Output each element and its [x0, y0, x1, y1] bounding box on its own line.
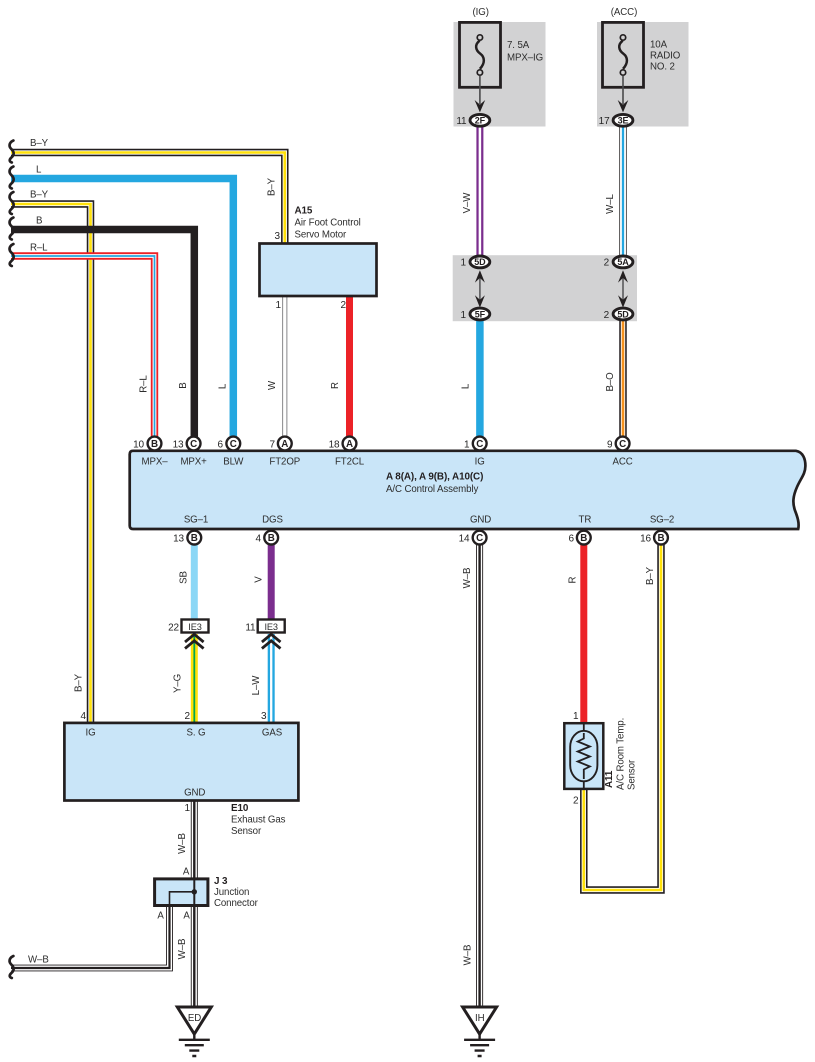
pin circle DGS 4B — [264, 531, 278, 545]
ground ED hatch — [179, 1034, 210, 1056]
pin circle MPX+ 13C — [187, 437, 201, 451]
svg-text:B–Y: B–Y — [74, 673, 85, 692]
svg-text:BLW: BLW — [223, 457, 244, 468]
pin circle GND 14C — [473, 531, 487, 545]
svg-text:MPX–IG: MPX–IG — [507, 53, 543, 64]
fuse 7.5A MPX-IG body — [460, 22, 501, 87]
connector oval 5A top — [613, 256, 633, 268]
svg-text:RADIO: RADIO — [650, 51, 681, 62]
svg-text:B: B — [191, 533, 198, 544]
svg-text:R: R — [568, 576, 579, 583]
svg-text:B: B — [178, 382, 189, 388]
relay block background — [453, 255, 637, 321]
wire W-B GND to IH ground — [476, 544, 483, 1007]
svg-text:Sensor: Sensor — [231, 826, 262, 837]
svg-text:6: 6 — [569, 534, 575, 545]
svg-text:2: 2 — [573, 796, 579, 807]
svg-text:2: 2 — [604, 258, 610, 269]
ground IH hatch — [464, 1034, 495, 1056]
cut squiggle L — [10, 167, 14, 189]
svg-text:L: L — [461, 383, 472, 389]
svg-text:1: 1 — [185, 803, 191, 814]
svg-text:R–L: R–L — [139, 375, 150, 393]
cut squiggle B-Y second — [10, 192, 14, 214]
J3 internal branch wire — [170, 892, 195, 905]
arrow into 2F — [475, 100, 486, 112]
connector IE3 left box — [182, 620, 209, 633]
svg-text:C: C — [476, 439, 483, 450]
svg-text:Air Foot Control: Air Foot Control — [295, 218, 361, 229]
svg-text:1: 1 — [461, 310, 467, 321]
svg-text:2: 2 — [341, 300, 347, 311]
svg-text:GAS: GAS — [262, 728, 283, 739]
wire W-B branch from left to J3 — [11, 904, 170, 968]
svg-text:6: 6 — [218, 440, 224, 451]
svg-text:10A: 10A — [650, 40, 668, 51]
wire W-L fuse ACC to relay — [619, 126, 626, 256]
wire V-W fuse IG to relay — [476, 126, 483, 256]
svg-text:Exhaust Gas: Exhaust Gas — [231, 815, 286, 826]
ground IH triangle — [463, 1007, 497, 1034]
svg-text:5F: 5F — [475, 309, 486, 319]
svg-text:A/C Room Temp.: A/C Room Temp. — [616, 718, 627, 790]
svg-text:IE3: IE3 — [264, 622, 278, 632]
svg-text:GND: GND — [184, 788, 205, 799]
pin circle IG 1C — [473, 437, 487, 451]
svg-text:C: C — [190, 439, 197, 450]
svg-text:Junction: Junction — [214, 887, 249, 898]
A11 pin stubs — [583, 723, 585, 789]
svg-text:18: 18 — [329, 440, 340, 451]
svg-text:17: 17 — [599, 116, 610, 127]
svg-text:E10: E10 — [231, 803, 249, 814]
svg-text:J 3: J 3 — [214, 876, 228, 887]
svg-text:ED: ED — [188, 1013, 201, 1024]
wire W A15 pin1 to FT2OP — [282, 297, 287, 437]
svg-text:(ACC): (ACC) — [611, 7, 637, 18]
svg-text:A 8(A), A 9(B), A10(C): A 8(A), A 9(B), A10(C) — [386, 472, 483, 483]
connector IE3 right box — [258, 620, 285, 633]
wire B-O relay 5D to ACC pin — [619, 318, 627, 437]
connector oval 5D top — [470, 256, 490, 268]
svg-text:2: 2 — [604, 310, 610, 321]
svg-text:A: A — [183, 867, 190, 878]
svg-text:W–B: W–B — [463, 945, 474, 966]
svg-text:IG: IG — [85, 728, 95, 739]
wire B-Y top to A15 pin3 — [11, 153, 285, 246]
svg-text:MPX+: MPX+ — [180, 457, 207, 468]
fuse 10A RADIO NO.2 body — [603, 22, 644, 87]
A/C room temp sensor A11 box — [564, 723, 603, 789]
svg-text:R–L: R–L — [30, 243, 48, 254]
svg-text:2: 2 — [185, 711, 191, 722]
svg-text:W–B: W–B — [177, 939, 188, 960]
IE3 right chevron — [262, 634, 281, 648]
svg-text:C: C — [619, 439, 626, 450]
wire R A15 pin2 to FT2CL — [346, 297, 353, 437]
svg-text:L: L — [36, 165, 42, 176]
servo motor A15 box — [260, 244, 377, 297]
J3 junction dot — [192, 889, 197, 894]
svg-text:FT2OP: FT2OP — [269, 457, 300, 468]
svg-text:W–B: W–B — [28, 955, 49, 966]
svg-text:IG: IG — [475, 457, 485, 468]
svg-text:4: 4 — [81, 711, 87, 722]
wire L to BLW pin — [11, 179, 233, 438]
svg-text:V: V — [254, 576, 265, 583]
svg-text:B: B — [580, 533, 587, 544]
pin circle FT2OP 7A — [278, 437, 292, 451]
svg-text:A/C Control Assembly: A/C Control Assembly — [386, 484, 478, 495]
svg-text:3: 3 — [261, 711, 267, 722]
svg-text:Y–G: Y–G — [173, 674, 184, 693]
ground ED triangle — [177, 1007, 211, 1034]
svg-text:Sensor: Sensor — [627, 759, 638, 790]
svg-text:IH: IH — [475, 1013, 485, 1024]
svg-text:C: C — [230, 439, 237, 450]
svg-text:3E: 3E — [618, 116, 629, 126]
wire R TR to A11 pin1 — [580, 544, 587, 723]
svg-text:A: A — [281, 439, 288, 450]
svg-text:14: 14 — [459, 534, 470, 545]
svg-text:1: 1 — [276, 300, 282, 311]
svg-text:W–B: W–B — [462, 568, 473, 589]
svg-text:DGS: DGS — [262, 515, 283, 526]
svg-text:B–Y: B–Y — [30, 138, 49, 149]
pin circle FT2CL 18A — [343, 437, 357, 451]
wire R-L to MPX- pin — [11, 256, 155, 437]
cut squiggle B-Y top — [10, 141, 14, 163]
svg-text:A: A — [157, 911, 164, 922]
arrow into 3E — [618, 100, 629, 112]
svg-text:4: 4 — [256, 534, 262, 545]
svg-text:5D: 5D — [474, 257, 486, 267]
svg-text:B–Y: B–Y — [267, 177, 278, 196]
svg-text:NO. 2: NO. 2 — [650, 62, 675, 73]
wire L-W IE3 to E10 GAS — [268, 634, 275, 723]
wire SB SG-1 to IE3 — [191, 544, 198, 620]
svg-text:GND: GND — [470, 515, 491, 526]
connector oval 2F — [470, 114, 490, 126]
svg-text:C: C — [476, 533, 483, 544]
pin circle ACC 9C — [616, 437, 630, 451]
relay junction arrow left — [475, 270, 485, 307]
svg-text:Servo Motor: Servo Motor — [295, 230, 348, 241]
svg-text:1: 1 — [464, 440, 470, 451]
svg-text:ACC: ACC — [613, 457, 633, 468]
pin circle MPX- 10B — [148, 437, 162, 451]
fuse block background (IG) — [454, 22, 546, 127]
svg-text:3: 3 — [275, 231, 281, 242]
svg-text:B: B — [268, 533, 275, 544]
wire B to MPX+ pin — [11, 230, 194, 438]
svg-text:W–B: W–B — [177, 833, 188, 854]
svg-text:5A: 5A — [617, 257, 629, 267]
connector oval 5F bottom — [470, 308, 490, 320]
svg-text:11: 11 — [456, 116, 467, 127]
svg-text:SG–1: SG–1 — [184, 515, 208, 526]
IE3 left chevron — [185, 634, 204, 648]
svg-text:S. G: S. G — [187, 728, 206, 739]
wire fuse IG to connector 2F — [479, 76, 481, 104]
wire V DGS to IE3 — [268, 544, 275, 620]
svg-text:(IG): (IG) — [473, 7, 489, 18]
svg-text:1: 1 — [573, 711, 579, 722]
svg-text:Connector: Connector — [214, 898, 259, 909]
svg-text:B–O: B–O — [605, 372, 616, 392]
svg-text:SG–2: SG–2 — [650, 515, 674, 526]
junction connector J3 box — [155, 879, 208, 906]
fuse block background (ACC) — [597, 22, 689, 127]
exhaust gas sensor E10 box — [64, 723, 298, 801]
svg-text:TR: TR — [579, 515, 592, 526]
pin circle TR 6B — [577, 531, 591, 545]
svg-text:IE3: IE3 — [188, 622, 202, 632]
svg-text:7: 7 — [270, 440, 276, 451]
svg-text:B: B — [151, 439, 158, 450]
pin circle SG-2 16B — [654, 531, 668, 545]
svg-text:9: 9 — [607, 440, 613, 451]
wire L relay 5F to IG pin — [476, 318, 484, 437]
svg-text:A: A — [183, 911, 190, 922]
connector oval 5D bottom — [613, 308, 633, 320]
svg-text:L: L — [218, 383, 229, 389]
svg-text:2F: 2F — [475, 116, 486, 126]
svg-text:V–W: V–W — [462, 192, 473, 214]
pin circle BLW 6C — [226, 437, 240, 451]
svg-text:A11: A11 — [604, 770, 615, 788]
A11 thermistor capsule — [570, 731, 597, 782]
wire Y-G IE3 to E10 S.G — [191, 634, 198, 723]
wire B-Y left to E10 pin4 — [11, 204, 91, 723]
svg-text:16: 16 — [640, 534, 651, 545]
svg-text:R: R — [330, 382, 341, 389]
J3 internal wire through — [193, 880, 195, 905]
relay junction arrow right — [618, 270, 628, 307]
svg-text:5D: 5D — [617, 309, 629, 319]
svg-text:13: 13 — [173, 534, 184, 545]
svg-text:SB: SB — [178, 571, 189, 584]
cut squiggle B — [10, 218, 14, 240]
svg-text:B–Y: B–Y — [645, 566, 656, 585]
svg-text:22: 22 — [168, 623, 179, 634]
svg-text:A: A — [346, 439, 353, 450]
cut squiggle R-L — [10, 244, 14, 266]
svg-text:B: B — [36, 216, 42, 227]
pin circle SG-1 13B — [187, 531, 201, 545]
svg-text:10: 10 — [133, 440, 144, 451]
cut squiggle W-B bottom — [10, 956, 14, 978]
svg-text:13: 13 — [173, 440, 184, 451]
svg-text:B: B — [658, 533, 665, 544]
A11 resistor zigzag — [578, 733, 590, 779]
svg-text:L–W: L–W — [251, 675, 262, 696]
svg-text:FT2CL: FT2CL — [335, 457, 365, 468]
svg-text:7. 5A: 7. 5A — [507, 40, 530, 51]
wire fuse ACC to connector 3E — [622, 76, 624, 104]
svg-text:1: 1 — [461, 258, 467, 269]
svg-text:A15: A15 — [295, 206, 313, 217]
svg-text:B–Y: B–Y — [30, 190, 49, 201]
A/C control assembly box — [130, 451, 806, 529]
svg-text:W–L: W–L — [605, 193, 616, 213]
svg-text:11: 11 — [245, 623, 256, 634]
wire B-Y SG-2 to A11 pin2 — [584, 544, 661, 890]
wire W-B E10 pin1 through J3 to ED ground — [191, 800, 198, 1007]
connector oval 3E — [613, 114, 633, 126]
svg-text:W: W — [267, 380, 278, 390]
svg-text:MPX–: MPX– — [142, 457, 169, 468]
